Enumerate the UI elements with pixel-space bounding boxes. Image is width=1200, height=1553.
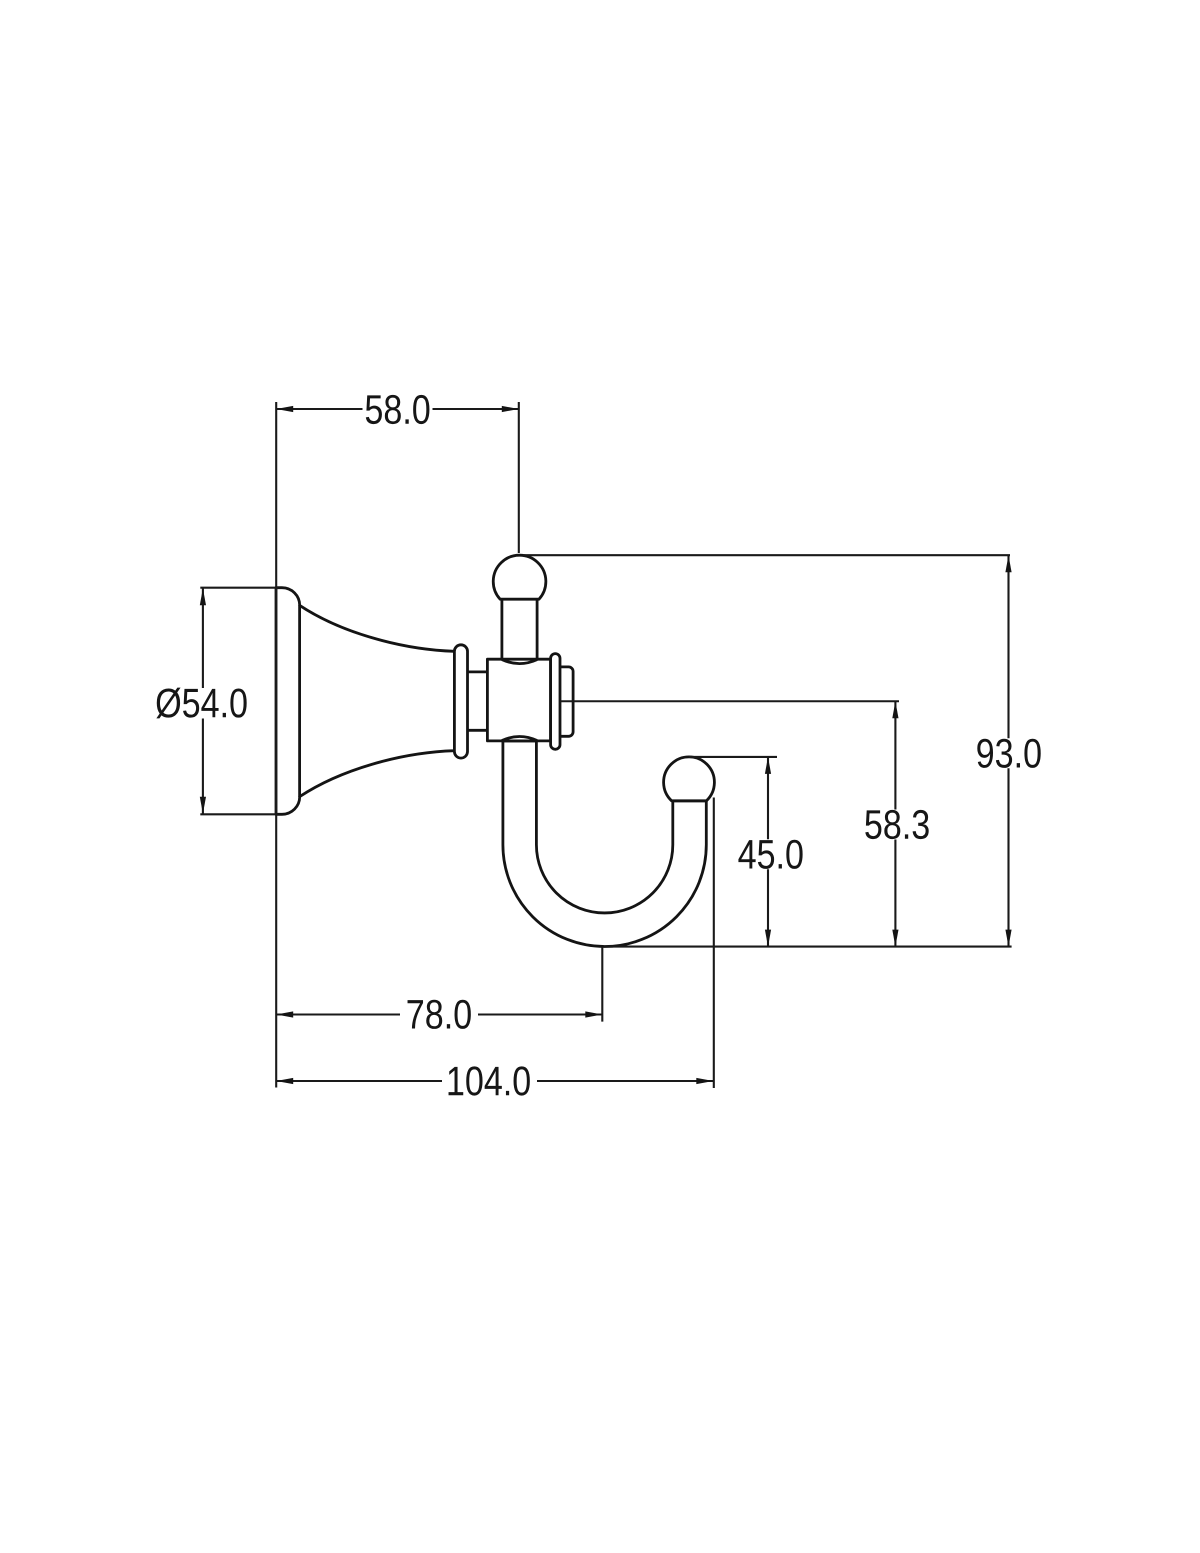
arrow 93.0 up — [1005, 555, 1011, 572]
label 58.3 — [865, 810, 928, 839]
arrow 58.0 right — [502, 406, 519, 412]
upper post left edge — [500, 599, 503, 661]
hook tip ball — [664, 757, 715, 801]
dimension line 58.3 — [894, 701, 896, 809]
dimension line 104.0 — [276, 1080, 442, 1082]
upper post right edge — [536, 599, 539, 661]
arrow dia54 up — [200, 588, 206, 605]
label 58.0 — [366, 395, 430, 424]
arrow 58.3 up — [892, 701, 898, 718]
dimension line 58.0 — [276, 408, 362, 410]
extension line bottom baseline horizontal — [604, 946, 1012, 948]
label 93.0 — [977, 739, 1040, 768]
dimension line 93.0 — [1007, 555, 1009, 738]
top finial ball — [493, 555, 546, 599]
extension line hook right vertical — [713, 798, 715, 1089]
extension line post center vertical — [518, 402, 520, 553]
extension line hook bottom vertical — [601, 947, 603, 1022]
hub bottom fillet arc — [502, 737, 537, 741]
arrow 45.0 up — [765, 757, 771, 774]
extension line flange bottom — [200, 813, 278, 815]
arrow 58.3 down — [892, 930, 898, 947]
label dia 54.0 — [156, 688, 246, 719]
extension line wall face vertical — [275, 402, 277, 1088]
arrow 78.0 right — [585, 1011, 602, 1017]
arrow 93.0 down — [1005, 930, 1011, 947]
arrow 58.0 left — [276, 406, 293, 412]
label 104.0 — [449, 1066, 530, 1095]
connector cylinder between collar and hub — [461, 672, 489, 730]
hub top fillet arc — [502, 660, 537, 664]
arrow 78.0 left — [276, 1011, 293, 1017]
dimension line dia 54.0 — [202, 588, 204, 688]
label 78.0 — [408, 1000, 471, 1029]
dimension line 45.0 — [767, 757, 769, 839]
extension line flange top — [200, 587, 278, 589]
dimension line 78.0 — [276, 1013, 400, 1015]
extension line ball top horizontal — [523, 554, 1010, 556]
arrow dia54 down — [200, 797, 206, 814]
left collar ring — [454, 645, 467, 758]
hub block — [487, 659, 550, 741]
extension line hub center horizontal — [561, 700, 900, 702]
end cap cylinder right of hub — [553, 667, 573, 736]
J-hook tube — [503, 741, 706, 946]
arrow 104.0 right — [696, 1078, 713, 1084]
arrow 45.0 down — [765, 930, 771, 947]
wall plate right face edge — [298, 605, 301, 797]
right collar ring — [551, 654, 560, 750]
extension line hook tip top horizontal — [689, 756, 777, 758]
arrow 104.0 left — [276, 1078, 293, 1084]
wall plate and trumpet flange outline — [276, 588, 454, 815]
label 45.0 — [738, 840, 802, 869]
